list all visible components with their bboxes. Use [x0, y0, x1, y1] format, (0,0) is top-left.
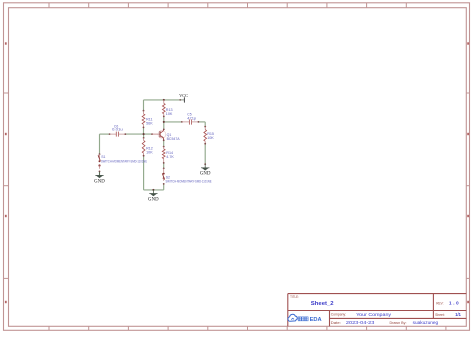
svg-text:VCC: VCC [179, 93, 188, 98]
capacitor C5 471p [181, 113, 199, 125]
node bottom ground junction [152, 189, 154, 191]
svg-text:suakuzuneg: suakuzuneg [413, 320, 439, 325]
title block [288, 294, 467, 327]
svg-text:EDA: EDA [310, 317, 322, 323]
resistor R11 56K [142, 110, 153, 129]
switch S1 SWITCH-MOMENTARY-SMD-1101NE [98, 153, 147, 172]
svg-text:TITLE:: TITLE: [290, 295, 299, 299]
svg-text:GND: GND [94, 179, 105, 184]
svg-text:SWITCH-MOMENTARY-SMD-1101NE: SWITCH-MOMENTARY-SMD-1101NE [166, 179, 212, 183]
resistor R12 10K [142, 137, 153, 157]
node collector junction [163, 121, 165, 123]
svg-text:1/1: 1/1 [455, 312, 461, 317]
wire R14 to S2 [163, 163, 165, 169]
wire R15 to GND [204, 144, 206, 165]
node base junction [143, 133, 145, 135]
power flag VCC [179, 93, 188, 103]
resistor R15 10K [204, 126, 214, 145]
ground flag GND (bottom center) [148, 190, 159, 203]
svg-text:0.01u: 0.01u [112, 127, 123, 131]
svg-text:SWITCH-MOMENTARY-SMD-1101NE: SWITCH-MOMENTARY-SMD-1101NE [101, 159, 147, 163]
svg-text:Your Company: Your Company [356, 312, 392, 317]
svg-text:471p: 471p [187, 116, 196, 120]
logo text [298, 317, 322, 323]
resistor R14 4.7K [162, 146, 174, 164]
svg-text:Company:: Company: [331, 313, 347, 317]
wire C5 to R15 [198, 122, 205, 127]
svg-text:GND: GND [148, 197, 159, 202]
svg-text:BC547A: BC547A [167, 137, 181, 141]
svg-text:10K: 10K [146, 151, 153, 155]
svg-text:10K: 10K [166, 112, 173, 116]
wire VCC rail net [144, 100, 181, 111]
svg-text:Sheet:: Sheet: [435, 313, 445, 317]
wire S1 to GND [99, 171, 101, 175]
wire emitter to R14 [163, 140, 165, 146]
capacitor C6 0.01u [109, 124, 127, 136]
wire collector net (R13 bottom - C5 - Q1 collector) [164, 117, 182, 130]
svg-text:4.7K: 4.7K [166, 155, 174, 159]
svg-text:1.0: 1.0 [449, 301, 459, 306]
svg-text:GND: GND [200, 172, 211, 177]
switch S2 SWITCH-MOMENTARY-SMD-1101NE [162, 168, 211, 185]
ground flag GND (R15) [200, 163, 211, 176]
svg-text:Drawn By:: Drawn By: [390, 321, 407, 325]
wire bottom ground net (R12 - GND - S2) [144, 156, 164, 190]
resistor R13 10K [162, 99, 172, 117]
svg-text:2023-04-23: 2023-04-23 [346, 320, 375, 325]
svg-text:Sheet_2: Sheet_2 [311, 301, 334, 307]
transistor Q1 BC547A [151, 129, 180, 142]
logo EasyEDA cloud [288, 314, 297, 321]
svg-text:10K: 10K [207, 136, 214, 140]
wire base net (C6 - R11 - R12 - Q1 base) [100, 127, 153, 154]
ground flag GND (S1) [94, 172, 105, 185]
svg-text:Date:: Date: [331, 321, 341, 325]
title block texts [290, 295, 461, 325]
svg-text:56K: 56K [146, 122, 153, 126]
svg-text:REV:: REV: [436, 302, 443, 306]
